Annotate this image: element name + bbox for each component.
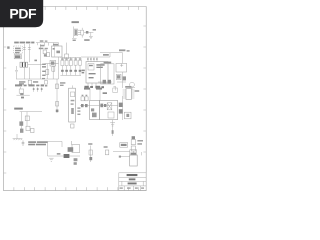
capacitor C6 bbox=[69, 57, 72, 75]
relay K3 contact marks bbox=[131, 153, 136, 155]
pot bottom ground bbox=[71, 124, 74, 128]
node TP2 label bbox=[103, 54, 109, 56]
note text line 2 bbox=[28, 144, 46, 146]
resistor R10 bbox=[56, 102, 59, 107]
resistor R9 bbox=[56, 84, 59, 89]
regulator block VR1 label bbox=[104, 62, 112, 64]
IC U1 inner block bbox=[88, 64, 94, 70]
wire bottom right rail bbox=[113, 151, 133, 155]
capacitor C1 bbox=[15, 66, 18, 79]
IC U2 pins left bbox=[123, 90, 126, 98]
dashed option box bbox=[14, 46, 23, 54]
transistor Q2 bbox=[19, 121, 23, 125]
bridge BR1 inner marks bbox=[53, 48, 60, 53]
IC U2 pins right bbox=[131, 90, 134, 98]
capacitor C11 bbox=[105, 150, 108, 155]
transistor Q5 chain bbox=[74, 158, 78, 165]
transformer T2 label bbox=[84, 88, 90, 90]
frame tick marks left edge bbox=[4, 26, 7, 173]
resistor R10 mark bbox=[56, 110, 59, 113]
bridge rectifier BR1 bbox=[52, 46, 62, 57]
capacitor C2 bbox=[47, 53, 50, 57]
top button label bbox=[14, 108, 23, 110]
tiny mark right bbox=[127, 50, 130, 51]
frame tick marks bottom edge bbox=[14, 187, 139, 190]
wire top rail bbox=[36, 43, 59, 46]
small cluster right of V1 bbox=[104, 146, 108, 148]
wire left bus drop 1 bbox=[23, 67, 25, 79]
diode D5 bbox=[64, 154, 70, 158]
capacitor C8 bbox=[31, 128, 34, 132]
wire to ground mid bbox=[112, 120, 114, 136]
title block bbox=[119, 173, 146, 191]
element V1 dark mark bbox=[89, 157, 92, 160]
label box N1 bbox=[120, 143, 128, 148]
J1 mounting mark bbox=[73, 40, 76, 41]
IC U1 inner text bbox=[89, 64, 105, 78]
thermistor RT1 body bbox=[131, 140, 135, 151]
wire sense line bbox=[40, 44, 42, 79]
vertical element V1 bbox=[89, 146, 92, 162]
diode D4 bbox=[124, 112, 131, 119]
IC U2 side label bbox=[135, 90, 140, 92]
diode D2 bbox=[45, 60, 59, 66]
fuse F1 ticks bbox=[23, 47, 31, 49]
relay K2 coil bbox=[68, 147, 74, 152]
net label L text bbox=[19, 81, 38, 84]
arrow tip bbox=[119, 156, 121, 158]
fuse F2 label bbox=[40, 45, 44, 47]
resistor R4 bbox=[52, 67, 55, 72]
label near diode bbox=[57, 153, 61, 155]
connector J1 label bbox=[72, 21, 79, 23]
node TP3 label bbox=[119, 49, 125, 51]
capacitor C5 bbox=[65, 57, 68, 75]
diode D3 bbox=[98, 80, 112, 84]
diode D4 mark bbox=[126, 114, 129, 117]
stub right bbox=[141, 152, 143, 155]
pot side labels bbox=[77, 107, 80, 115]
arrow head bbox=[119, 156, 129, 158]
connector P1 bbox=[14, 55, 21, 59]
transistor Q1 marks bbox=[117, 75, 126, 80]
node TP1 text bbox=[93, 29, 96, 31]
resistor R7 bbox=[25, 116, 29, 121]
series parts on bus bbox=[81, 104, 106, 108]
ground hatch mid bbox=[110, 122, 115, 126]
inner box X1 bbox=[107, 103, 112, 110]
title block text row 3 bbox=[128, 183, 137, 185]
diode D1 bbox=[84, 31, 93, 34]
note text row (No Connect...) bbox=[14, 42, 34, 44]
resistor R2 bbox=[43, 50, 46, 54]
potentiometer VR2 bbox=[69, 88, 76, 122]
varistor RV1 bbox=[28, 80, 31, 84]
ground hatching bbox=[13, 139, 22, 140]
connector J1 body bbox=[74, 27, 81, 39]
rail top labels bbox=[40, 40, 48, 42]
transformer T2 box bbox=[90, 100, 100, 119]
IC U1 top pins bbox=[88, 57, 97, 62]
wire stub above VR2 bbox=[72, 85, 74, 88]
svg-text:PDF: PDF bbox=[9, 6, 37, 22]
resistor R5 bbox=[74, 57, 77, 75]
filter bank bottom rail bbox=[60, 74, 81, 76]
inner box X2 bbox=[108, 112, 114, 118]
capacitor C13 bbox=[85, 97, 88, 101]
potentiometer inner block bbox=[71, 92, 75, 97]
capacitor polarity marks bbox=[82, 95, 88, 96]
stub mark bbox=[112, 130, 114, 134]
potentiometer inner marks bbox=[71, 100, 75, 114]
mid bus wire bbox=[80, 105, 118, 107]
ground below D1 bbox=[89, 32, 93, 38]
thermistor RT1 arrow bbox=[132, 136, 135, 139]
resistor R2 label bbox=[39, 48, 44, 50]
wire button rail bbox=[20, 112, 42, 132]
transformer T1 bbox=[20, 62, 28, 67]
dashed box text bbox=[15, 48, 21, 54]
capacitor C9 bbox=[22, 140, 25, 146]
relay K2 box bbox=[72, 141, 80, 153]
filter bank top rail bbox=[60, 56, 81, 58]
connector J1 pin marks bbox=[75, 30, 77, 35]
bridge rectifier BR1 label bbox=[53, 44, 58, 46]
node label TP4 bbox=[60, 82, 65, 86]
sense line tick bbox=[34, 60, 37, 62]
jumper pins bbox=[34, 87, 42, 91]
inductor L1 marks bbox=[82, 70, 85, 74]
resistor R2 label b bbox=[45, 48, 48, 49]
sheet frame top border bbox=[4, 7, 147, 191]
wire mid chain bbox=[56, 79, 58, 113]
tiny plus mark far left bbox=[7, 46, 9, 48]
relay K1 bbox=[81, 28, 84, 38]
wire AC line 1 bbox=[23, 44, 25, 62]
title block text row 1 bbox=[127, 174, 138, 176]
inner marks T2 bbox=[91, 108, 97, 117]
diode D2 mark bbox=[51, 61, 54, 64]
capacitor C2 mark bbox=[44, 54, 47, 56]
node TP5 label bbox=[103, 92, 107, 94]
IC U2 body bbox=[126, 89, 131, 100]
capacitor C7 bbox=[116, 63, 127, 72]
capacitor C10 bbox=[113, 86, 118, 92]
transformer T3 label bbox=[96, 88, 102, 90]
capacitor C4 bbox=[61, 57, 64, 75]
thermistor labels bbox=[137, 140, 143, 145]
switch row label bbox=[15, 84, 44, 86]
wire left bus drop 2 bbox=[28, 67, 30, 79]
capacitor C14 mark bbox=[45, 85, 47, 87]
wire bottom bus bbox=[16, 78, 59, 80]
wire right chain bbox=[122, 96, 124, 120]
ground under SW1 bbox=[21, 97, 24, 99]
label box N1 text bbox=[121, 144, 127, 146]
transistor Q4 bbox=[119, 103, 123, 114]
wire J1 bottom stub bbox=[72, 38, 77, 40]
filter bank polarity marks bbox=[61, 70, 81, 72]
wire pins to transformer boxes bbox=[90, 89, 100, 101]
transistor Q3 marks bbox=[20, 129, 23, 133]
capacitor C14 below bus bbox=[45, 81, 48, 85]
title block text row 2 bbox=[129, 178, 136, 180]
transformer T3 box bbox=[100, 100, 118, 119]
wire T1 output bbox=[28, 63, 45, 65]
regulator block VR1 body bbox=[101, 64, 114, 84]
resistor R8 bbox=[26, 126, 30, 130]
wire down from C7 bbox=[117, 72, 126, 88]
IC U1 body bbox=[86, 62, 108, 83]
connector P1 pins bbox=[15, 55, 20, 58]
title block row 4 cells text bbox=[120, 187, 144, 188]
resistor R1 value text bbox=[84, 39, 89, 41]
frame tick marks right edge bbox=[143, 26, 146, 152]
capacitor C12 bbox=[81, 97, 84, 101]
relay K3 upper box bbox=[130, 150, 137, 155]
IC U1 bottom pin numbers bbox=[84, 86, 104, 89]
frame tick marks top edge bbox=[14, 7, 139, 10]
switch SW1 bbox=[16, 87, 29, 95]
IC U1 bottom pins bbox=[88, 83, 96, 86]
IC U1 top wire bbox=[81, 53, 110, 57]
vertical element V1 label bbox=[88, 143, 92, 145]
transistor Q1 bbox=[116, 74, 121, 79]
IC U2 label bbox=[125, 86, 131, 88]
sense labels column bbox=[42, 64, 46, 80]
note text line 1 bbox=[28, 141, 47, 143]
capacitor C3 bbox=[65, 54, 69, 59]
IC U1 pin numbers bbox=[87, 58, 97, 59]
wire to upper right bbox=[100, 53, 123, 64]
wire to ground left bbox=[13, 134, 23, 139]
filter bank labels bbox=[61, 58, 81, 59]
ground bottom left bbox=[49, 158, 53, 161]
wire AC line 2 bbox=[28, 44, 30, 62]
heater block H1 bbox=[130, 155, 138, 166]
resistor R6 bbox=[79, 57, 82, 75]
wire bottom rail bbox=[48, 155, 80, 157]
jumper pin dots bbox=[33, 88, 43, 90]
wire drops below D2 bbox=[47, 57, 58, 79]
LED DS1 bbox=[129, 82, 135, 89]
resistor R3 bbox=[46, 70, 49, 75]
wire right of rail bbox=[66, 43, 68, 54]
bottom left circuit wire bbox=[48, 141, 62, 156]
PDF badge bbox=[0, 0, 50, 32]
